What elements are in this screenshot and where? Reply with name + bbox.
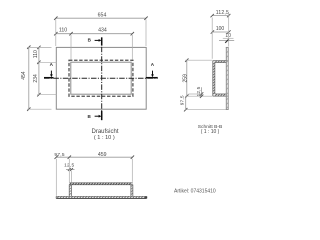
svg-text:454: 454 xyxy=(21,71,27,80)
svg-text:Draufsicht: Draufsicht xyxy=(91,129,118,135)
svg-text:( 1 : 10 ): ( 1 : 10 ) xyxy=(201,129,220,135)
svg-text:110: 110 xyxy=(59,28,67,34)
svg-text:110: 110 xyxy=(33,50,39,58)
svg-text:( 1 : 10 ): ( 1 : 10 ) xyxy=(94,135,115,141)
svg-text:97,5: 97,5 xyxy=(54,152,64,158)
svg-text:Artikel: 074315410: Artikel: 074315410 xyxy=(174,189,216,195)
svg-text:654: 654 xyxy=(98,13,107,19)
svg-text:12,5: 12,5 xyxy=(196,86,202,96)
svg-text:434: 434 xyxy=(98,28,107,34)
svg-text:10: 10 xyxy=(225,33,231,39)
svg-text:459: 459 xyxy=(98,152,107,158)
svg-text:234: 234 xyxy=(33,74,39,83)
svg-text:259: 259 xyxy=(182,74,188,83)
svg-text:97,5: 97,5 xyxy=(180,95,186,105)
svg-text:100: 100 xyxy=(216,26,225,32)
svg-text:112,5: 112,5 xyxy=(216,10,229,16)
